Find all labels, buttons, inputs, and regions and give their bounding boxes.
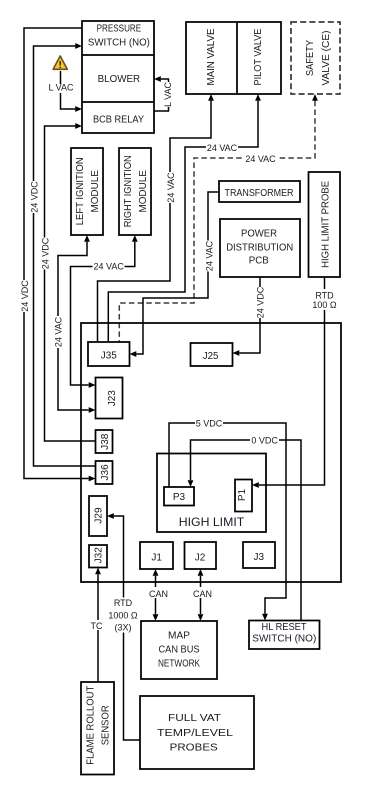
svg-text:SENSOR: SENSOR	[101, 705, 112, 745]
label 24 VAC (main valve wire, vertical)	[165, 172, 175, 203]
arrow into right ignition module	[132, 235, 138, 242]
P3	[164, 487, 194, 506]
svg-text:24 VDC: 24 VDC	[20, 280, 30, 312]
J3	[243, 542, 275, 568]
svg-text:SWITCH (NO): SWITCH (NO)	[88, 38, 150, 49]
wire 24VDC from pressure switch to J36 (lower)	[24, 28, 89, 479]
svg-text:(3X): (3X)	[114, 623, 131, 633]
svg-text:SWITCH (NO): SWITCH (NO)	[252, 634, 316, 645]
wire 24VAC J23 to right ignition module	[71, 242, 135, 385]
svg-text:J2: J2	[195, 552, 206, 563]
J36	[96, 461, 113, 484]
svg-text:24 VAC: 24 VAC	[205, 240, 215, 271]
label 24 VDC (x44.5 wire)	[40, 238, 50, 270]
svg-text:PRESSURE: PRESSURE	[97, 24, 142, 35]
main valve / pilot valve	[186, 22, 281, 94]
svg-text:100 Ω: 100 Ω	[312, 300, 337, 310]
arrowheads	[75, 43, 318, 621]
arrow into J1 (CAN)	[153, 569, 159, 576]
arrow into pressure switch	[75, 43, 82, 49]
svg-text:MODULE: MODULE	[138, 170, 149, 213]
boxes	[71, 21, 341, 775]
right ignition module	[119, 148, 151, 235]
label 24 VAC (J23 left module wire)	[93, 262, 125, 271]
P1	[235, 480, 252, 512]
wire 24VDC power pcb to J25	[239, 277, 260, 353]
svg-text:1000 Ω: 1000 Ω	[108, 611, 138, 621]
svg-text:CAN: CAN	[149, 589, 168, 599]
label 24 VAC (pilot valve wire)	[206, 143, 238, 152]
J1	[140, 542, 173, 569]
MAP CAN BUS network	[141, 621, 217, 679]
arrow into MAP network (CAN1)	[153, 614, 159, 621]
label 24 VAC (safety valve wire)	[245, 154, 277, 163]
high limit inner box	[157, 454, 266, 533]
arrow into blower	[154, 76, 161, 82]
J25	[191, 343, 233, 366]
arrow into J2 (CAN)	[198, 569, 204, 576]
wire RTD 1000ohm full vat probes to J29	[114, 516, 140, 740]
J2	[185, 542, 217, 569]
svg-text:CAN BUS: CAN BUS	[159, 645, 200, 656]
svg-text:24 VDC: 24 VDC	[29, 181, 39, 213]
label CAN (J1)	[146, 587, 171, 598]
wire 24VDC into pressure switch from J36 (upper)	[34, 46, 96, 466]
svg-text:24 VAC: 24 VAC	[245, 154, 276, 164]
high limit probe	[309, 172, 341, 277]
control board outline	[81, 323, 341, 582]
svg-text:J36: J36	[100, 464, 111, 481]
svg-text:VALVE (CE): VALVE (CE)	[321, 31, 332, 86]
svg-text:L VAC: L VAC	[48, 83, 74, 93]
svg-text:CAN: CAN	[193, 589, 212, 599]
label RTD 1000 ohm 3X	[106, 598, 140, 633]
svg-text:HL RESET: HL RESET	[262, 622, 307, 633]
wire 24VAC pilot valve to J35	[108, 101, 258, 342]
label 24 VAC (x58 wire)	[53, 316, 63, 348]
HL reset switch	[249, 621, 320, 650]
arrow into HL reset switch	[262, 614, 268, 621]
left ignition module	[71, 148, 103, 235]
svg-text:LEFT IGNITION: LEFT IGNITION	[75, 157, 86, 225]
wire 24VAC main valve to J35	[98, 101, 212, 342]
label CAN (J2)	[190, 587, 215, 598]
wire 5VDC P3 to HL reset switch	[169, 423, 286, 614]
svg-text:P3: P3	[173, 492, 186, 503]
svg-text:BLOWER: BLOWER	[98, 74, 141, 85]
arrow into J23 upper	[89, 382, 96, 388]
svg-text:DISTRIBUTION: DISTRIBUTION	[226, 242, 293, 253]
label TC	[88, 620, 104, 630]
arrow into MAP network (CAN2)	[198, 614, 204, 621]
arrow into J35	[130, 351, 137, 357]
wire 0VDC to P3	[191, 440, 302, 621]
power distribution PCB	[220, 219, 300, 277]
arrow into pilot valve	[255, 94, 261, 101]
wire L VAC BCB relay to blower	[154, 79, 169, 111]
wire CAN J2 to MAP network	[200, 576, 202, 614]
label 24 VDC (pcb wire, vertical)	[255, 287, 265, 318]
svg-text:FLAME ROLLOUT: FLAME ROLLOUT	[86, 686, 97, 765]
svg-text:PCB: PCB	[249, 255, 269, 266]
arrow into BCB relay (L VAC)	[75, 106, 82, 112]
svg-text:MODULE: MODULE	[90, 170, 101, 213]
svg-text:P1: P1	[237, 488, 248, 501]
label 24 VAC (transformer wire, vertical)	[203, 241, 213, 272]
svg-text:RTD: RTD	[114, 598, 133, 608]
svg-text:J32: J32	[94, 547, 105, 564]
svg-text:NETWORK: NETWORK	[158, 659, 200, 670]
warning triangle	[53, 56, 67, 69]
label 5 VDC	[195, 419, 223, 428]
transformer	[219, 181, 300, 202]
svg-text:HIGH LIMIT: HIGH LIMIT	[179, 515, 245, 529]
svg-text:J38: J38	[100, 433, 111, 450]
svg-text:SAFETY: SAFETY	[305, 40, 316, 76]
svg-text:TEMP/LEVEL: TEMP/LEVEL	[157, 728, 234, 739]
svg-text:J29: J29	[94, 507, 105, 524]
svg-text:L VAC: L VAC	[163, 81, 173, 107]
svg-text:J3: J3	[254, 552, 265, 563]
arrow into P3 (0VDC)	[188, 480, 194, 487]
svg-text:PROBES: PROBES	[170, 743, 218, 754]
label 24 VDC (x24 wire)	[19, 280, 29, 312]
J38	[96, 430, 113, 453]
svg-text:POWER: POWER	[241, 229, 277, 240]
svg-text:24 VDC: 24 VDC	[40, 237, 50, 269]
svg-text:5 VDC: 5 VDC	[196, 418, 223, 428]
arrow into BCB relay (24VDC)	[75, 123, 82, 129]
wire 24VAC transformer to J35	[136, 192, 219, 354]
arrow into J29 (RTD)	[107, 513, 114, 519]
svg-text:RTD: RTD	[315, 291, 334, 301]
wire RTD 100ohm probe to P1	[259, 277, 325, 485]
svg-text:PILOT VALVE: PILOT VALVE	[253, 28, 264, 85]
wire TC flame rollout to J32	[97, 574, 99, 682]
safety valve (CE) dashed	[291, 22, 340, 94]
arrow into J32 (TC)	[95, 568, 101, 575]
wire labels (with white backgrounds)	[19, 81, 339, 632]
label RTD 100 ohm	[310, 289, 339, 310]
svg-text:J35: J35	[101, 351, 117, 362]
arrow into safety valve	[312, 94, 318, 101]
label 24 VDC (x33.5 wire)	[29, 181, 39, 213]
svg-text:RIGHT IGNITION: RIGHT IGNITION	[123, 155, 134, 227]
svg-text:0 VDC: 0 VDC	[251, 436, 278, 446]
svg-text:BCB RELAY: BCB RELAY	[93, 115, 144, 126]
svg-text:MAP: MAP	[168, 631, 190, 642]
wire 24VAC safety valve dashed to J35	[119, 101, 315, 342]
arrow into J23 lower	[89, 407, 96, 413]
svg-text:24 VAC: 24 VAC	[54, 316, 64, 347]
svg-text:HIGH LIMIT PROBE: HIGH LIMIT PROBE	[320, 181, 331, 268]
svg-text:FULL VAT: FULL VAT	[168, 713, 221, 724]
flame rollout sensor	[81, 682, 114, 775]
svg-text:24 VAC: 24 VAC	[207, 143, 238, 153]
label L VAC (blower wire, vertical)	[164, 82, 174, 107]
svg-text:24 VAC: 24 VAC	[94, 261, 125, 271]
arrow into P1	[252, 482, 259, 488]
J32	[89, 545, 107, 568]
svg-text:J25: J25	[203, 351, 219, 362]
svg-text:24 VAC: 24 VAC	[166, 172, 176, 203]
box labels	[75, 24, 332, 765]
arrow into J36 lower	[89, 476, 96, 482]
arrow into J25	[233, 350, 240, 356]
arrow into left ignition module	[84, 235, 90, 242]
J35	[88, 342, 130, 366]
wire CAN J1 to MAP network	[155, 576, 157, 614]
svg-text:TC: TC	[91, 621, 103, 631]
arrow into main valve	[208, 94, 214, 101]
wire L VAC triangle to BCB relay	[61, 71, 76, 109]
full vat temp/level probes	[140, 696, 254, 769]
label L VAC (triangle)	[55, 84, 66, 93]
svg-text:24 VDC: 24 VDC	[256, 286, 266, 318]
J23	[96, 378, 123, 419]
label 0 VDC	[250, 436, 279, 445]
svg-text:J23: J23	[107, 390, 118, 407]
wire 24VAC J23 to left ignition module	[58, 242, 89, 410]
svg-text:J1: J1	[151, 552, 162, 563]
pressure switch / blower / BCB relay stack	[82, 21, 154, 133]
J29	[89, 496, 107, 536]
wire 24VDC BCB relay to J38	[45, 126, 96, 441]
svg-text:TRANSFORMER: TRANSFORMER	[225, 188, 294, 199]
svg-text:MAIN VALVE: MAIN VALVE	[206, 28, 217, 85]
